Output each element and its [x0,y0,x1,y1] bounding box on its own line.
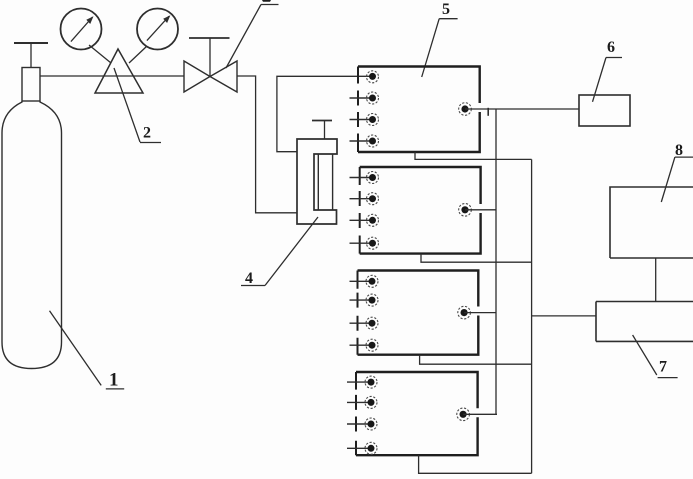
nozzle stubs box 5c [350,281,370,345]
label 3 leader [226,5,279,69]
box 6 [579,95,630,126]
rotameter 4 valve stem [324,121,326,139]
wire pipe neck to regulator [40,75,184,77]
chamber box 5d left edge ticks [355,372,357,455]
box 7 [596,302,693,342]
svg-text:8: 8 [675,142,683,159]
label 4 leader [241,217,318,286]
label 2 leader [114,68,161,143]
wire sensor 5c to bus [464,312,496,314]
dots box 5d [368,379,375,452]
chamber box 5b left edge ticks [359,167,361,254]
outlet box 5b [421,254,532,263]
outlet box 5a [415,152,532,159]
nozzles group [347,98,370,448]
regulator 2 triangle [95,49,143,93]
nozzle stubs box 5d [347,382,369,448]
rotameter 4 body [297,139,337,224]
sensor dot box 5b [461,206,468,213]
cylinder neck [22,68,40,102]
gauge M1 link wire [89,45,111,63]
chamber boxes group [356,67,481,456]
outlet bus vertical [531,159,533,473]
wire box 8 to box 7 [655,258,657,302]
wire sensor 5d to bus [463,413,497,415]
outlet box 5c [420,355,532,365]
label 5 leader [422,19,458,77]
cylinder valve stem [30,43,32,68]
label 3 clipped digit [262,0,271,2]
dots box 5c [369,278,376,349]
sensor dot box 5c [461,309,468,316]
valve 3 T-bar [189,37,230,39]
label 8 leader [661,157,693,202]
label 7 leader [633,335,678,378]
chamber box 5c outline [358,271,479,355]
gauge M2 needle [147,16,169,40]
gauge M2 link wire [129,46,147,63]
sensor bus vertical [495,109,497,414]
chamber box 5a outline [358,67,480,153]
svg-text:1: 1 [109,370,119,391]
wire valve to downpipe [237,76,297,213]
sensor dot box 5d [460,411,467,418]
valve 3 bowtie [184,61,237,92]
label 1 leader [50,311,125,389]
wire sensor 5b to bus [465,209,496,211]
nozzle stubs box 5a [350,98,371,141]
outlet box 5d [419,455,532,473]
gauge M1 circle [61,9,102,50]
nozzle dots group [365,71,471,455]
svg-text:7: 7 [659,359,667,376]
sensor dot box 5a [461,105,468,112]
chamber box 5a left edge ticks [357,67,359,153]
rotameter 4 tube walls [318,154,332,210]
gauge M2 circle [137,9,178,50]
junction tick sensor 5a [487,108,489,116]
dot rings left [365,71,379,455]
chamber box 5d outline [356,372,478,455]
nozzle stubs box 5b [350,178,371,244]
label 6 leader [593,58,623,102]
svg-text:6: 6 [607,39,615,56]
cylinder valve T-bar [14,42,48,44]
dots box 5b [369,174,376,247]
wire sensor 5a to box 6 [465,108,579,110]
rotameter 4 T-bar [312,120,332,122]
dots box 5a [369,73,376,145]
box 8 [610,187,693,258]
gauge M1 needle [71,17,93,42]
chamber box 5b outline [360,167,481,254]
svg-text:5: 5 [442,1,450,18]
svg-text:2: 2 [143,125,151,142]
gas cylinder 1 body [2,101,62,369]
wire rotameter out to chambers [277,76,370,151]
chamber box 5c left edge ticks [357,271,359,355]
svg-text:4: 4 [245,270,253,287]
wire bus to box 7 [532,315,596,317]
valve 3 stem [209,38,211,77]
sensor dot rings [457,103,472,421]
